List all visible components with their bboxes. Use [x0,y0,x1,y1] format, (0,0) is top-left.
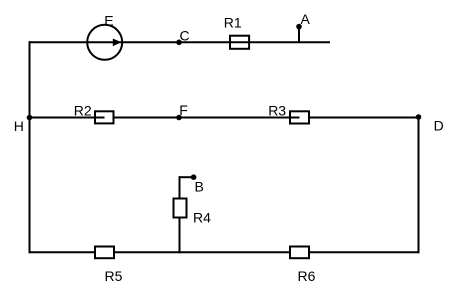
wire R6 to bottom right [309,251,420,253]
resistor R6 [290,247,309,259]
wire bottom left to R5 [29,251,96,253]
resistor R4 [174,199,187,218]
wire corner to B [179,176,194,178]
resistor R1 [230,36,249,49]
svg-text:C: C [180,27,190,43]
wire right vertical D branch [418,117,420,254]
svg-text:E: E [104,13,113,29]
svg-text:R5: R5 [105,268,123,284]
wire R3 to D [309,117,419,119]
svg-text:A: A [301,11,311,27]
svg-text:R4: R4 [193,210,211,226]
wire R4 to corner [179,176,181,198]
resistor R2 [95,111,114,123]
wire top E-C-R1-A [29,41,331,43]
node C [176,40,182,46]
node D [416,114,422,120]
wire H to R2 [29,117,105,119]
svg-text:R2: R2 [74,102,92,118]
wire R5 to R6 [114,251,290,253]
svg-text:D: D [434,118,444,134]
wire bottom to R4 [179,218,181,254]
svg-text:R1: R1 [224,14,242,30]
svg-text:F: F [179,102,188,118]
svg-text:R6: R6 [298,268,316,284]
wire left vertical H branch [29,41,31,253]
node F [176,115,182,121]
wire R2 to R3 [114,117,300,119]
node B [191,174,197,180]
wire node A stub [298,27,300,43]
svg-text:R3: R3 [268,102,286,118]
resistor R3 [290,111,309,123]
node H [27,115,33,121]
resistor R5 [95,247,114,259]
svg-text:H: H [14,118,24,134]
node A [296,24,302,30]
source E circle [87,25,122,60]
source E arrow [113,39,122,47]
svg-text:B: B [195,178,204,194]
